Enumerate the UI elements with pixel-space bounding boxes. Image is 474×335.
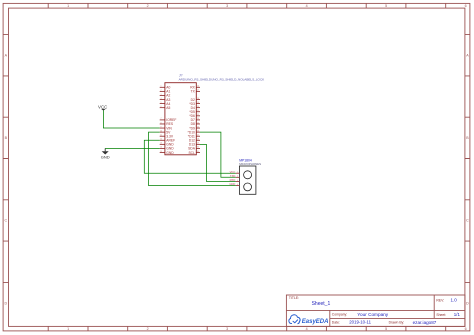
svg-text:24: 24 bbox=[197, 122, 199, 124]
svg-text:1.0: 1.0 bbox=[451, 298, 458, 303]
pin A2 (left, #3) bbox=[160, 94, 171, 98]
svg-text:19: 19 bbox=[197, 102, 199, 104]
svg-text:1/1: 1/1 bbox=[454, 312, 461, 317]
svg-text:4: 4 bbox=[161, 98, 162, 100]
svg-text:GND: GND bbox=[166, 151, 174, 155]
wire J? pin D13 to MP1 pin 3 bbox=[200, 144, 236, 181]
pin SCL (right, #31) bbox=[188, 151, 200, 155]
svg-text:C: C bbox=[4, 219, 7, 223]
svg-text:2: 2 bbox=[147, 4, 149, 8]
pin *D5 (right, #21) bbox=[189, 110, 200, 114]
IC J? ARDUINO_R3_SHIELD (UNO_R3_SHIELD_NOLABELS_LOCK) bbox=[160, 74, 265, 155]
svg-text:7: 7 bbox=[161, 118, 162, 120]
pin D13 (right, #29) bbox=[189, 143, 200, 147]
pin *D3 (right, #19) bbox=[189, 102, 200, 106]
svg-text:29: 29 bbox=[197, 143, 199, 145]
svg-text:D: D bbox=[466, 301, 469, 305]
pin D2 (right, #18) bbox=[191, 98, 200, 102]
svg-text:6: 6 bbox=[465, 327, 467, 331]
pin SDA (right, #30) bbox=[188, 147, 200, 151]
svg-text:TITLE:: TITLE: bbox=[289, 296, 299, 300]
wire GND to J? pin GND (2nd) bbox=[105, 147, 160, 149]
svg-text:4: 4 bbox=[237, 184, 238, 186]
pin *D9 (right, #25) bbox=[189, 126, 200, 130]
svg-text:TXD: TXD bbox=[230, 174, 235, 178]
pin *D6 (right, #22) bbox=[189, 114, 200, 118]
pin TXD (#2) bbox=[230, 174, 239, 178]
pin GND (#4) bbox=[229, 182, 239, 186]
pin D12 (right, #28) bbox=[189, 139, 200, 143]
svg-text:25: 25 bbox=[197, 126, 199, 128]
svg-text:9: 9 bbox=[161, 126, 162, 128]
svg-text:Your Company: Your Company bbox=[357, 312, 388, 317]
svg-text:Sheet_1: Sheet_1 bbox=[312, 301, 331, 307]
pin D8 (right, #24) bbox=[191, 122, 200, 126]
svg-text:22: 22 bbox=[197, 114, 199, 116]
svg-text:11: 11 bbox=[160, 135, 162, 137]
svg-text:27: 27 bbox=[197, 135, 199, 137]
svg-text:GND: GND bbox=[229, 182, 235, 186]
svg-text:A5: A5 bbox=[166, 106, 170, 110]
svg-text:Drawn By:: Drawn By: bbox=[389, 321, 405, 325]
svg-text:13: 13 bbox=[160, 143, 162, 145]
pin VIN (left, #9) bbox=[160, 126, 173, 130]
svg-text:VCC: VCC bbox=[98, 104, 107, 109]
svg-text:2019-10-11: 2019-10-11 bbox=[349, 320, 371, 325]
svg-text:18: 18 bbox=[197, 98, 199, 100]
svg-text:EasyEDA: EasyEDA bbox=[302, 319, 329, 325]
svg-text:1: 1 bbox=[161, 86, 162, 88]
svg-text:REV:: REV: bbox=[436, 298, 444, 302]
pin 5V (left, #10) bbox=[160, 130, 171, 134]
wire J? pin 5V to MP1 pin 4 bbox=[149, 132, 236, 185]
svg-text:Sheet:: Sheet: bbox=[436, 313, 446, 317]
wire VCC to J? pin VIN bbox=[103, 110, 159, 128]
svg-text:ARDUINO_R3_SHIELDUNO_R3_SHIELD: ARDUINO_R3_SHIELDUNO_R3_SHIELD_NOLABELS_… bbox=[179, 77, 266, 81]
svg-text:20: 20 bbox=[197, 106, 199, 108]
svg-text:VCC: VCC bbox=[230, 170, 236, 174]
wire J? pin *D10 to MP1 pin 2 bbox=[200, 132, 236, 177]
pin D4 (right, #20) bbox=[191, 106, 200, 110]
svg-text:30: 30 bbox=[197, 147, 199, 149]
svg-text:15: 15 bbox=[160, 151, 162, 153]
svg-text:6: 6 bbox=[161, 106, 162, 108]
svg-text:4: 4 bbox=[306, 327, 308, 331]
svg-text:GND: GND bbox=[101, 155, 110, 160]
symbol body bbox=[239, 166, 256, 194]
pin GND (left, #14) bbox=[160, 147, 175, 151]
power flag VCC bbox=[98, 104, 107, 110]
pin A1 (left, #2) bbox=[160, 90, 171, 94]
pin VCC (#1) bbox=[230, 170, 240, 174]
svg-text:Date:: Date: bbox=[332, 321, 340, 325]
svg-text:MICROPHONES: MICROPHONES bbox=[239, 162, 261, 166]
svg-text:26: 26 bbox=[197, 130, 199, 132]
ground GND bbox=[101, 148, 110, 159]
pin *D11 (right, #27) bbox=[188, 134, 200, 138]
pin GND (left, #15) bbox=[160, 151, 175, 155]
svg-text:2: 2 bbox=[161, 90, 162, 92]
svg-text:5: 5 bbox=[385, 327, 387, 331]
svg-text:RXD: RXD bbox=[230, 178, 236, 182]
svg-text:10: 10 bbox=[160, 130, 162, 132]
svg-text:1: 1 bbox=[67, 4, 69, 8]
EasyEDA logo bbox=[289, 315, 329, 325]
pin *D10 (right, #26) bbox=[188, 130, 200, 134]
svg-text:SCL: SCL bbox=[188, 151, 195, 155]
svg-text:4: 4 bbox=[306, 4, 308, 8]
pin RXD (#3) bbox=[230, 178, 240, 182]
pin GND (left, #13) bbox=[160, 143, 175, 147]
svg-text:5: 5 bbox=[161, 102, 162, 104]
pin A3 (left, #4) bbox=[160, 98, 171, 102]
svg-text:31: 31 bbox=[197, 151, 199, 153]
pin RX (right, #16) bbox=[190, 86, 200, 90]
svg-text:5: 5 bbox=[385, 4, 387, 8]
pin RES (left, #8) bbox=[160, 122, 174, 126]
svg-text:C: C bbox=[466, 219, 469, 223]
pin A5 (left, #6) bbox=[160, 106, 171, 110]
svg-text:Company:: Company: bbox=[332, 313, 348, 317]
symbol body bbox=[165, 83, 196, 155]
svg-text:3: 3 bbox=[226, 4, 228, 8]
svg-text:1: 1 bbox=[237, 172, 238, 174]
title block bbox=[286, 295, 465, 326]
pin D7 (right, #23) bbox=[191, 118, 200, 122]
pin TX (right, #17) bbox=[191, 90, 200, 94]
svg-text:D: D bbox=[4, 301, 7, 305]
svg-text:6: 6 bbox=[465, 4, 467, 8]
svg-text:12: 12 bbox=[160, 139, 162, 141]
pin A0 (left, #1) bbox=[160, 86, 171, 90]
pin AREF (left, #12) bbox=[160, 139, 175, 143]
svg-text:21: 21 bbox=[197, 110, 199, 112]
svg-text:ezar.iago87: ezar.iago87 bbox=[413, 320, 437, 325]
pin IOREF (left, #7) bbox=[160, 118, 177, 122]
connector MP1804 MICROPHONES bbox=[229, 158, 261, 194]
svg-text:2: 2 bbox=[147, 327, 149, 331]
svg-text:8: 8 bbox=[161, 122, 162, 124]
svg-text:23: 23 bbox=[197, 118, 199, 120]
wire J? pin AREF to MP1 pin 1 bbox=[144, 140, 236, 173]
svg-text:17: 17 bbox=[197, 90, 199, 92]
svg-text:3: 3 bbox=[226, 327, 228, 331]
svg-text:3: 3 bbox=[161, 94, 162, 96]
svg-text:1: 1 bbox=[67, 327, 69, 331]
pin A4 (left, #5) bbox=[160, 102, 171, 106]
svg-text:3: 3 bbox=[237, 180, 238, 182]
svg-text:14: 14 bbox=[160, 147, 162, 149]
svg-text:16: 16 bbox=[197, 86, 199, 88]
pin 3.3V (left, #11) bbox=[160, 134, 174, 138]
svg-text:28: 28 bbox=[197, 139, 199, 141]
svg-text:2: 2 bbox=[237, 176, 238, 178]
